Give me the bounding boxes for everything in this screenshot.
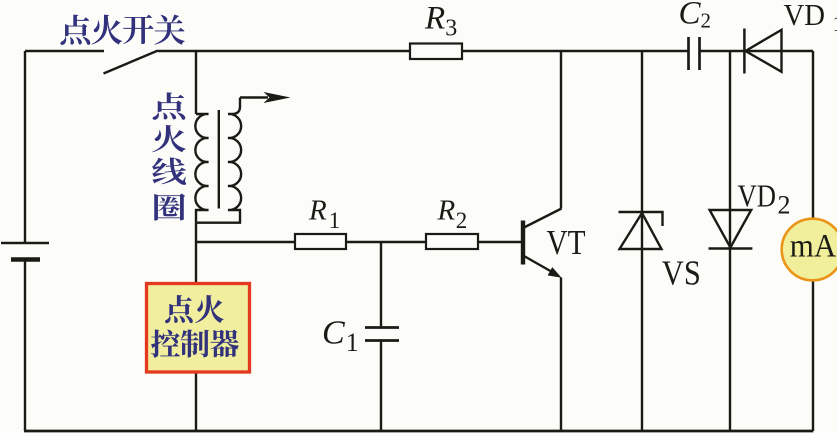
svg-text:VD: VD [738, 177, 777, 213]
label 点火开关 ignition switch [60, 15, 185, 45]
transistor VT collector lead [524, 209, 562, 228]
wire left vertical below battery [24, 260, 26, 432]
label 点火 in controller box [165, 295, 224, 323]
battery GB short plate [11, 257, 40, 262]
svg-text:VD: VD [784, 0, 826, 32]
svg-text:C: C [679, 0, 702, 32]
svg-text:2: 2 [778, 191, 791, 220]
wire collector vertical [560, 51, 562, 209]
ignition coil T core [218, 110, 220, 209]
svg-text:1: 1 [833, 11, 837, 36]
svg-text:R: R [424, 1, 445, 37]
diode VD2 cathode bar [709, 247, 753, 249]
diode VD2 triangle [710, 210, 752, 248]
wire top middle from switch to R3 [158, 50, 410, 52]
wire bottom rail [24, 430, 813, 433]
battery GB long plate [1, 242, 49, 245]
transistor VT emitter lead [524, 256, 553, 273]
wire from controller box to bottom rail [195, 372, 197, 431]
wire left vertical above battery [24, 51, 26, 243]
wire top-left from battery branch to switch [25, 50, 104, 52]
wire emitter vertical [560, 278, 562, 432]
ignition coil T secondary winding [196, 98, 241, 223]
svg-text:2: 2 [701, 9, 712, 33]
milliammeter mA body [782, 219, 837, 281]
wire C1 branch upper [380, 242, 382, 327]
wire top from R3 to C2 [462, 50, 688, 52]
wire ignition-coil branch from top rail [195, 51, 197, 114]
ignition controller box [147, 284, 250, 373]
svg-text:2: 2 [456, 208, 468, 233]
wire from coil bottom to controller box [195, 223, 197, 284]
capacitor C1 top plate [365, 326, 399, 329]
svg-text:VT: VT [547, 223, 586, 262]
secondary output wire with arrow [240, 96, 268, 98]
switch blade S (点火开关) [104, 51, 159, 74]
svg-text:VS: VS [662, 254, 701, 293]
svg-text:1: 1 [346, 328, 359, 357]
wire top from C2 through VD1 to top-right corner [700, 50, 814, 52]
svg-text:C: C [322, 315, 345, 352]
svg-text:mA: mA [790, 229, 837, 265]
zener diode VS triangle [620, 213, 662, 249]
transistor VT emitter arrowhead [548, 267, 562, 278]
wire right vertical below mA meter [812, 280, 814, 431]
arrowhead of secondary output [264, 92, 291, 103]
ignition coil T primary winding [195, 114, 208, 223]
label 点火线圈 ignition coil [152, 92, 186, 220]
capacitor C1 bottom plate [365, 339, 399, 342]
wire R1 to R2 through C1 node [346, 241, 426, 243]
diode VD1 triangle [746, 30, 782, 72]
resistor R2 body [426, 234, 478, 249]
resistor R1 body [295, 234, 346, 249]
svg-text:R: R [308, 195, 327, 227]
transistor VT base bar [521, 221, 525, 265]
label 控制器 in controller box [151, 330, 239, 358]
capacitor C2 right plate [698, 37, 701, 70]
wire R2 to transistor base [478, 241, 521, 243]
svg-text:3: 3 [445, 16, 457, 42]
wire base rail to R1 [196, 241, 295, 243]
wire VD2 branch [729, 51, 731, 431]
svg-text:R: R [437, 195, 456, 227]
svg-text:1: 1 [329, 208, 341, 233]
wire VS branch [641, 51, 643, 431]
capacitor C2 left plate [687, 37, 690, 70]
resistor R3 body [410, 44, 462, 60]
diode VD1 cathode bar [743, 29, 746, 74]
wire C1 branch lower [380, 341, 382, 431]
zener diode VS cathode bar with hook [619, 212, 663, 226]
wire right vertical into mA meter [812, 51, 814, 219]
